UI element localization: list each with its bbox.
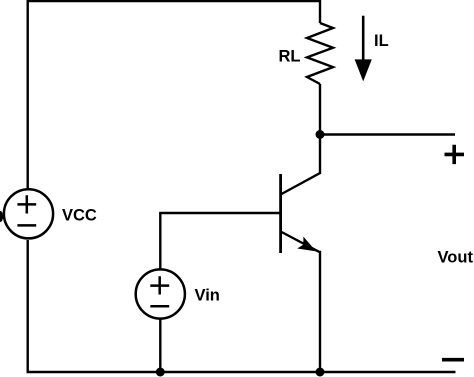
transistor Q1 emitter with arrow — [281, 232, 320, 373]
node emitter ground junction — [316, 368, 325, 377]
wire Vin to ground rail — [159, 319, 161, 372]
wire output node to plus terminal — [320, 133, 455, 135]
wire base — [160, 213, 280, 269]
terminal plus — [445, 145, 465, 164]
current arrow IL — [355, 16, 372, 82]
wire collector — [281, 135, 320, 195]
svg-text:Vout: Vout — [438, 249, 474, 267]
wire top rail from VCC to RL — [28, 1, 320, 188]
svg-text:IL: IL — [374, 32, 389, 50]
svg-text:RL: RL — [279, 48, 301, 66]
svg-text:VCC: VCC — [62, 207, 97, 225]
wire RL bottom to output node — [319, 84, 321, 135]
transistor Q1 bar — [279, 174, 282, 253]
resistor RL — [307, 23, 333, 84]
svg-text:Vin: Vin — [195, 287, 220, 305]
terminal minus — [442, 358, 464, 362]
wire stub at left image edge — [0, 211, 3, 222]
node Vin ground junction — [156, 368, 165, 377]
voltage source Vin — [136, 269, 185, 318]
wire VCC bottom rail — [28, 240, 456, 372]
voltage source VCC — [4, 189, 53, 238]
node output junction — [316, 130, 325, 139]
